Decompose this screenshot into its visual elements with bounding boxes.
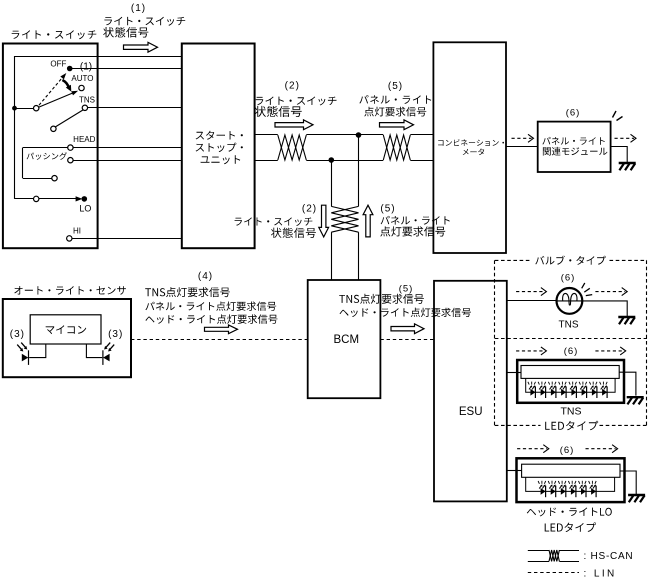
twisted pair symbol 2 (HS-CAN) (383, 135, 410, 160)
start stop unit label (196, 131, 243, 165)
signal flow arrow (5) up (363, 205, 373, 237)
svg-text:: LIN: : LIN (584, 568, 617, 579)
head light LED array (6 LEDs) (538, 481, 596, 497)
twisted pair symbol 1 (HS-CAN) (278, 135, 307, 160)
LIN wire: sensor to BCM (dashed) (131, 339, 308, 341)
label (4) TNS / panel light / head light request signals (145, 271, 277, 324)
svg-text:LO: LO (79, 204, 91, 214)
junction: bus to rotary pivot (12, 106, 17, 111)
rotary lever to AUTO (solid) (39, 93, 74, 108)
combination meter label (438, 139, 504, 155)
label passing (パッシング) (27, 152, 67, 160)
svg-text:ESU: ESU (459, 406, 483, 418)
auto light sensor box (3, 299, 131, 377)
ground: TNS bulb (618, 317, 635, 324)
svg-text:(5): (5) (380, 204, 395, 215)
wire: CAN branch right vertical upper (358, 135, 360, 206)
signal flow arrow (1) right (124, 42, 158, 52)
contact OFF (closed dot) (67, 66, 73, 72)
wire: common bus vertical (14, 56, 16, 199)
LIN dashed arrow: ESU to head light LED (517, 448, 547, 450)
signal flow arrow (5) right (380, 120, 414, 130)
contact HI (67, 236, 72, 241)
svg-text:TNS: TNS (79, 95, 95, 104)
svg-text:: HS-CAN: : HS-CAN (584, 551, 634, 562)
TNS LED array frame (526, 378, 615, 392)
bulb TNS (lamp symbol) (557, 288, 583, 314)
wire: meter to panel light module (506, 146, 538, 148)
svg-text:(5): (5) (399, 283, 414, 294)
svg-text:HEAD: HEAD (73, 135, 95, 144)
LIN dashed arrow: TNS LED return (595, 350, 623, 352)
wire: microcomputer to right photodiode (86, 344, 102, 358)
wire: module to ground (611, 147, 628, 163)
wire: HS-CAN bottom SSU to twist 1 (255, 160, 278, 162)
wire: bus to rotary pivot (15, 108, 34, 110)
wire: HEAD contact to start-stop unit (73, 147, 182, 149)
wire: CAN branch left vertical upper (331, 160, 333, 206)
label (1) signal: light switch state signal (103, 3, 185, 38)
panel light related module box (538, 122, 611, 172)
wire: microcomputer to left photodiode (29, 344, 46, 358)
wire: TNS LED unit to ground (619, 372, 636, 395)
ground: panel light module (619, 163, 636, 170)
wire: HS-CAN bottom twist1 to twist2 (306, 160, 383, 162)
svg-text:(4): (4) (198, 271, 213, 282)
wire: HI contact to start-stop unit (72, 238, 182, 240)
light arrows into D2 (104, 343, 114, 352)
TNS LED light guide (521, 366, 619, 379)
illumination rays at TNS bulb (582, 283, 593, 296)
wire: passing contact to start-stop unit (73, 160, 182, 162)
bulb/LED group dashed left edge (494, 260, 496, 425)
illumination rays at module (613, 111, 623, 121)
svg-text:(1): (1) (80, 62, 92, 73)
wire: HS-CAN bottom twist2 to meter (410, 160, 433, 162)
label (5) panel light on request signal (359, 81, 431, 117)
junction: CAN-H branch (356, 132, 362, 138)
ESU box (434, 281, 507, 502)
head light LED array frame (526, 477, 615, 491)
wire: OFF contact to start-stop unit (70, 68, 182, 70)
signal flow arrow (4) right (205, 325, 238, 334)
svg-text:(1): (1) (131, 3, 146, 14)
light switch assembly SW1 box (3, 44, 98, 249)
wire: ESU to TNS bulb (507, 300, 556, 302)
wire: ESU to head light LED unit (507, 470, 522, 472)
wire: head light LED unit to ground (620, 471, 636, 494)
wire: CAN branch right vertical lower to BCM (358, 232, 360, 280)
svg-text:(6): (6) (560, 445, 575, 456)
LIN wire: BCM to ESU (dashed) (380, 339, 434, 341)
svg-text:(3): (3) (10, 329, 25, 340)
label (5) TNS / head light request signals (339, 283, 471, 317)
start stop unit box (182, 44, 255, 249)
signal flow arrow (2) down (319, 205, 329, 237)
photodiode D1 (left) (22, 350, 29, 365)
bulb type group (dashed): top edge (495, 259, 647, 261)
svg-text:(3): (3) (108, 329, 123, 340)
signal flow arrow (2) right (275, 120, 313, 130)
rotary lever to OFF (dashed) (39, 77, 63, 106)
signal flow arrow (5) BCM to ESU (391, 324, 424, 334)
wire: HS-CAN top SSU to twist 1 (255, 134, 278, 136)
wire: TNS feed link (55, 110, 83, 127)
LIN dashed arrow: ESU to TNS LED (516, 350, 544, 352)
legend: LIN dashed line symbol (528, 572, 579, 574)
wire: passing bracket bottom (23, 178, 52, 180)
svg-text:OFF: OFF (50, 59, 66, 68)
LIN dashed arrow: meter to panel light module (512, 137, 532, 139)
combination meter box (433, 42, 506, 253)
label LED type (LEDタイプ) (545, 522, 596, 532)
microcomputer label (46, 325, 86, 334)
wire: passing bracket top (23, 147, 68, 149)
LO switch contact (34, 196, 39, 201)
contact passing (lower) (68, 158, 73, 163)
contact TNS (82, 105, 87, 110)
twisted pair symbol 3 vertical (HS-CAN) (331, 206, 358, 232)
rotation arrow OFF to AUTO (62, 80, 69, 88)
TNS LED array (8 LEDs) (528, 382, 607, 398)
svg-text:TNS: TNS (559, 320, 579, 331)
svg-text:AUTO: AUTO (71, 74, 93, 83)
svg-text:(5): (5) (388, 81, 403, 92)
svg-text:BCM: BCM (334, 334, 360, 346)
bulb type group label (バルブ・タイプ) (535, 256, 606, 265)
LED type group label on bottom edge (LEDタイプ) (545, 421, 598, 431)
wire: TNS bulb to ground (583, 301, 628, 316)
TNS feed contact (51, 126, 56, 131)
label (2) light switch state signal (255, 81, 337, 118)
ground: TNS LED (627, 397, 644, 404)
wire: bus corner to LO switch (15, 198, 34, 200)
wire: CAN branch left vertical lower to BCM (331, 232, 333, 280)
head light LED unit outer box (517, 458, 625, 502)
svg-text:(6): (6) (564, 346, 579, 357)
label head light LO (ヘッド・ライトLO) (527, 508, 612, 517)
svg-text:(6): (6) (566, 108, 581, 119)
photodiode D2 (right) (103, 350, 110, 365)
legend: HS-CAN twisted pair symbol (528, 550, 579, 562)
label (5) panel light on request signal (up) (380, 204, 449, 237)
wire: LO switch to LO terminal (39, 198, 77, 200)
LIN dashed arrow: head light LED return (586, 448, 616, 450)
terminal LO (closed dot) (82, 196, 88, 202)
svg-text:TNS: TNS (561, 406, 582, 418)
junction: CAN-L branch (329, 157, 335, 163)
passing feed contact (52, 176, 57, 181)
svg-text:HI: HI (73, 227, 81, 236)
ground: head light LED (628, 495, 645, 502)
label: auto light sensor (オート・ライト・センサ) (14, 286, 126, 295)
rotary switch pivot contact (34, 106, 39, 111)
bulb/LED group dashed right edge (646, 260, 648, 425)
title label: light switch (ライト・スイッチ) (12, 30, 97, 39)
light arrows into D1 (17, 343, 27, 352)
label (2) light switch state signal (down) (235, 204, 318, 238)
svg-text:(2): (2) (302, 204, 317, 215)
wire: ESU to TNS LED unit (507, 372, 521, 374)
svg-text:(6): (6) (561, 273, 576, 284)
LED type group: bottom edge dashes (495, 424, 647, 426)
LIN dashed arrow: ESU to TNS bulb (516, 291, 544, 293)
svg-text:(2): (2) (285, 81, 300, 92)
wire: common feed top from bus to start-stop unit (15, 56, 182, 58)
contact AUTO (79, 85, 84, 90)
BCM box (308, 280, 381, 398)
wire: HS-CAN top twist2 to meter (410, 134, 433, 136)
wire: passing bracket vertical (22, 148, 24, 179)
wire: HS-CAN top twist1 to twist2 (306, 134, 383, 136)
LIN dashed arrow: TNS bulb return (595, 291, 625, 293)
TNS LED unit outer box (517, 360, 624, 403)
microcomputer box (マイコン) (30, 315, 101, 344)
head light LED light guide (522, 464, 620, 477)
wire: TNS contact to start-stop unit (88, 107, 182, 109)
divider between bulb type and LED type (dashed) (495, 338, 647, 340)
contact HEAD (68, 145, 73, 150)
LIN dashed arrow: module output right (615, 137, 635, 139)
panel light related module label (542, 137, 607, 156)
